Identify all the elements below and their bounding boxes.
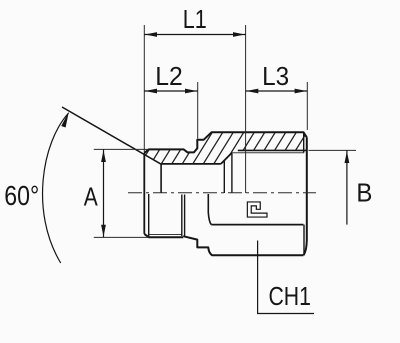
female thread minor line xyxy=(232,152,304,154)
drill cone edge xyxy=(223,161,225,194)
CH1 leader xyxy=(258,241,314,314)
thread start edge xyxy=(231,153,233,193)
end chamfer edge (bottom external) xyxy=(303,225,305,255)
hex left edge + chamfer arc (bottom) xyxy=(208,194,211,225)
end chamfer edge (top section) xyxy=(303,133,305,153)
60 degree arc xyxy=(43,113,69,263)
bore line xyxy=(161,163,221,165)
svg-text:L2: L2 xyxy=(155,61,183,91)
female thread major line xyxy=(238,149,307,151)
60-deg cone line xyxy=(62,107,161,164)
svg-text:CH1: CH1 xyxy=(268,281,311,311)
body bottom profile (external half) xyxy=(183,236,303,255)
tip chamfer edge (bottom) xyxy=(148,194,150,237)
A dimension line xyxy=(103,149,105,237)
svg-text:B: B xyxy=(356,178,372,208)
A extension lines xyxy=(94,148,149,150)
cone apex edge xyxy=(160,164,162,193)
svg-text:L1: L1 xyxy=(183,4,207,34)
L2 dimension line xyxy=(144,90,197,92)
hex face line (bottom) xyxy=(211,224,303,226)
L3 dimension line xyxy=(246,90,308,92)
L1 right / L3 left extension xyxy=(245,25,247,193)
centerline xyxy=(128,192,316,194)
end face right xyxy=(303,137,306,255)
B extension line xyxy=(309,149,357,151)
L1 extension left / tip face extension xyxy=(143,25,145,152)
svg-text:A: A xyxy=(84,182,99,212)
L2 right extension xyxy=(197,82,199,139)
B dimension line (single arrow) xyxy=(346,150,348,224)
L3 right extension xyxy=(306,82,308,130)
svg-text:L3: L3 xyxy=(262,61,289,91)
thread end line 1 (bottom) xyxy=(181,195,183,237)
thread root thin line (bottom external) xyxy=(149,234,182,236)
male tip end face xyxy=(143,153,145,234)
L1 dimension line xyxy=(144,34,245,36)
thread symbol spiral xyxy=(249,204,267,215)
male thread OD bottom xyxy=(144,234,183,237)
body top profile (sectioned half) xyxy=(144,132,306,153)
thread end line 2 (bottom) xyxy=(184,195,186,236)
drill cone xyxy=(221,153,232,164)
svg-text:60°: 60° xyxy=(4,180,39,211)
section hatching (top half of body) xyxy=(144,132,306,164)
